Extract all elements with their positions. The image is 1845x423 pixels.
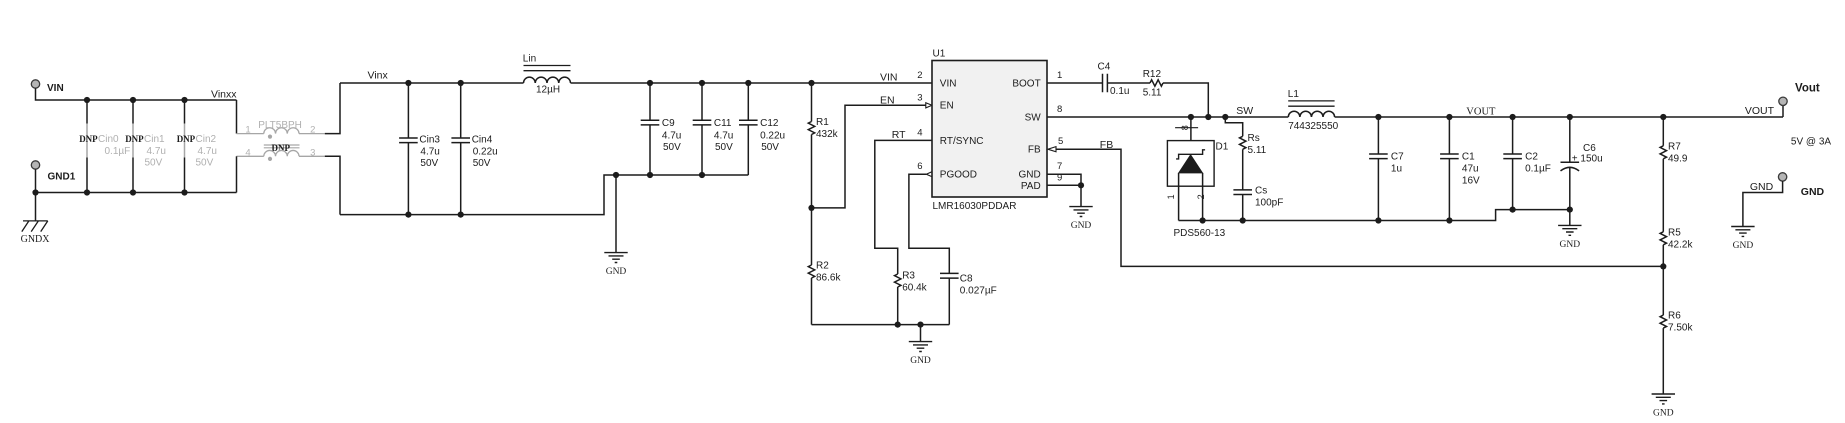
svg-text:C2: C2 bbox=[1525, 152, 1538, 163]
wire PGOOD net bbox=[909, 174, 949, 273]
svg-text:744325550: 744325550 bbox=[1288, 121, 1338, 132]
junction gnd-drop bbox=[613, 172, 619, 178]
junction rail-R1 bbox=[808, 80, 814, 86]
wire to GNDX bbox=[35, 193, 37, 221]
capacitor Cin0 greyed body bbox=[86, 124, 88, 158]
svg-text:50V: 50V bbox=[715, 142, 733, 153]
junction Vinxx-Cin0 bbox=[84, 97, 90, 103]
capacitor Cin2 greyed body bbox=[184, 124, 186, 158]
ground bbox=[1652, 394, 1675, 404]
pin 6 arrow PGOOD bbox=[926, 172, 932, 177]
junction SW-Rs bbox=[1222, 114, 1228, 120]
svg-text:3: 3 bbox=[310, 147, 315, 158]
svg-text:47u: 47u bbox=[1462, 164, 1479, 175]
terminal VIN bbox=[31, 80, 39, 88]
junction SW-R12 bbox=[1205, 114, 1211, 120]
terminal VOUT bbox=[1779, 97, 1787, 105]
wire VOUT to terminal bbox=[1782, 105, 1784, 117]
capacitor C2 bbox=[1512, 117, 1514, 210]
choke FL1 PLT5BPH pin1 lead bbox=[237, 133, 264, 135]
svg-text:EN: EN bbox=[940, 101, 954, 112]
op-amp U1 LMR16030PDDAR body bbox=[932, 61, 1047, 198]
svg-text:VOUT: VOUT bbox=[1466, 106, 1496, 117]
resistor R1 bbox=[811, 83, 813, 122]
junction gnd-Cin0 bbox=[84, 189, 90, 195]
junction FB-R5-R6 bbox=[1660, 263, 1666, 269]
svg-text:86.6k: 86.6k bbox=[816, 272, 841, 283]
svg-text:FB: FB bbox=[1100, 139, 1113, 151]
svg-text:4: 4 bbox=[917, 127, 922, 138]
svg-text:R6: R6 bbox=[1668, 311, 1681, 322]
wire Vinxx corner to choke pin1 bbox=[236, 100, 238, 134]
svg-text:8: 8 bbox=[1057, 104, 1062, 115]
resistor R3 bbox=[895, 274, 901, 287]
junction Vinxx-Cin1 bbox=[130, 97, 136, 103]
pin 5 arrow FB bbox=[1048, 147, 1056, 152]
capacitor C6 polarized bbox=[1569, 117, 1571, 162]
capacitor C12 bbox=[747, 83, 749, 175]
wire SW to Rs bbox=[1225, 117, 1242, 136]
junction GND1-GNDX bbox=[32, 189, 38, 195]
wire bottom ground rail left bbox=[340, 175, 748, 215]
svg-text:2: 2 bbox=[1196, 194, 1206, 199]
capacitor Cin0 (DNP) lead top bbox=[86, 100, 88, 124]
junction R3-gnd bbox=[895, 322, 901, 328]
capacitor Cin0 lead bottom bbox=[86, 158, 88, 193]
resistor R7 bbox=[1662, 117, 1664, 146]
svg-text:FB: FB bbox=[1028, 145, 1041, 156]
svg-text:3: 3 bbox=[917, 92, 922, 103]
svg-text:C7: C7 bbox=[1391, 152, 1404, 163]
wire SW to D1 cathode bbox=[1190, 117, 1192, 154]
ground bbox=[909, 342, 932, 352]
svg-text:PAD: PAD bbox=[1021, 181, 1041, 192]
svg-text:50V: 50V bbox=[145, 158, 163, 169]
svg-text:D1: D1 bbox=[1216, 142, 1229, 153]
svg-text:+ 150u: + 150u bbox=[1572, 153, 1603, 164]
svg-text:GND: GND bbox=[1018, 170, 1040, 181]
ground bbox=[1069, 207, 1092, 217]
choke phase dot bottom bbox=[268, 157, 272, 161]
choke core lines bbox=[264, 145, 300, 148]
junction gnd-C2 bbox=[1510, 207, 1516, 213]
svg-text:12µH: 12µH bbox=[536, 85, 560, 96]
svg-text:RT/SYNC: RT/SYNC bbox=[940, 136, 984, 147]
svg-text:C9: C9 bbox=[662, 118, 675, 129]
capacitor Cin1 (DNP) lead top bbox=[132, 100, 134, 124]
svg-text:2: 2 bbox=[917, 70, 922, 81]
svg-text:Cin4: Cin4 bbox=[472, 135, 493, 146]
wire choke pin3 to bottom rail bbox=[325, 156, 340, 214]
svg-text:PGOOD: PGOOD bbox=[940, 170, 977, 181]
svg-text:4.7u: 4.7u bbox=[714, 130, 733, 141]
wire C4 to R12 bbox=[1107, 82, 1150, 84]
junction vout-C1 bbox=[1446, 114, 1452, 120]
svg-text:Cin3: Cin3 bbox=[419, 135, 440, 146]
choke pin4 lead bbox=[237, 155, 264, 157]
svg-text:GND: GND bbox=[1560, 240, 1581, 250]
svg-text:50V: 50V bbox=[196, 158, 214, 169]
wire C6 to GND bbox=[1569, 210, 1571, 226]
svg-text:0.22u: 0.22u bbox=[760, 130, 785, 141]
wire RT net bbox=[875, 140, 932, 274]
junction gnd-C7 bbox=[1375, 217, 1381, 223]
resistor Rs bbox=[1240, 136, 1246, 149]
svg-text:SW: SW bbox=[1236, 105, 1253, 117]
svg-text:7: 7 bbox=[1057, 161, 1062, 172]
junction SW-D1 bbox=[1188, 114, 1194, 120]
svg-text:4: 4 bbox=[245, 147, 250, 158]
capacitor C7 bbox=[1377, 117, 1379, 221]
junction Vinx-Cin4 bbox=[458, 80, 464, 86]
capacitor Cin1 greyed body bbox=[132, 124, 134, 158]
wire GND terminal to ground bbox=[1743, 181, 1783, 227]
capacitor C8 bbox=[940, 273, 959, 278]
svg-text:R2: R2 bbox=[816, 260, 829, 271]
capacitor Cin2 lead bottom bbox=[184, 158, 186, 193]
junction gnd-Cin4 bbox=[458, 212, 464, 218]
resistor R2 bbox=[811, 208, 813, 265]
svg-text:GND: GND bbox=[1733, 241, 1754, 251]
wire GND PAD pins bbox=[1047, 174, 1081, 206]
capacitor C11 bbox=[701, 83, 703, 175]
svg-text:Rs: Rs bbox=[1248, 133, 1260, 144]
svg-text:0.1u: 0.1u bbox=[1110, 86, 1129, 97]
svg-text:50V: 50V bbox=[663, 142, 681, 153]
svg-text:Vinx: Vinx bbox=[368, 70, 389, 82]
junction gnd-tap bbox=[917, 322, 923, 328]
svg-text:Cin0: Cin0 bbox=[98, 134, 119, 145]
capacitor C1 bbox=[1448, 117, 1450, 221]
svg-text:50V: 50V bbox=[420, 158, 438, 169]
svg-text:5V @ 3A: 5V @ 3A bbox=[1791, 137, 1832, 148]
junction gnd-C6 bbox=[1567, 207, 1573, 213]
junction Vinxx-Cin2 bbox=[181, 97, 187, 103]
svg-text:C11: C11 bbox=[714, 118, 732, 129]
svg-text:4.7u: 4.7u bbox=[147, 146, 166, 157]
junction gnd-C1 bbox=[1446, 217, 1452, 223]
resistor R12 bbox=[1150, 80, 1163, 86]
junction GND-PAD bbox=[1078, 182, 1084, 188]
junction vout-C7 bbox=[1375, 114, 1381, 120]
svg-text:DNP: DNP bbox=[272, 143, 291, 153]
svg-text:PLT5BPH: PLT5BPH bbox=[258, 120, 302, 131]
svg-text:7.50k: 7.50k bbox=[1668, 323, 1693, 334]
choke winding bottom bbox=[264, 150, 299, 156]
svg-text:RT: RT bbox=[892, 129, 906, 141]
svg-text:VIN: VIN bbox=[940, 78, 957, 89]
choke pin3 lead bbox=[299, 155, 325, 157]
wire VOUT rail bbox=[1335, 116, 1783, 118]
wire Vinx rail bbox=[340, 82, 524, 84]
ground bbox=[1731, 227, 1754, 237]
svg-text:GND: GND bbox=[606, 267, 627, 277]
resistor R6 bbox=[1660, 315, 1666, 328]
wire GND1 rail bbox=[36, 169, 237, 192]
svg-text:R3: R3 bbox=[902, 271, 915, 282]
junction Vinx-Cin3 bbox=[405, 80, 411, 86]
svg-text:5.11: 5.11 bbox=[1143, 88, 1162, 99]
inductor Lin winding bbox=[524, 77, 571, 83]
svg-text:DNP: DNP bbox=[177, 134, 196, 144]
svg-text:LMR16030PDDAR: LMR16030PDDAR bbox=[933, 201, 1017, 212]
svg-text:GNDX: GNDX bbox=[21, 234, 51, 245]
wire FB net bbox=[1056, 149, 1663, 266]
svg-text:5.11: 5.11 bbox=[1248, 145, 1267, 156]
svg-text:L1: L1 bbox=[1288, 89, 1300, 100]
svg-text:1: 1 bbox=[1166, 194, 1176, 199]
ground bbox=[1558, 225, 1581, 235]
wire RC ground rail bbox=[812, 324, 950, 326]
capacitor Cin2 (DNP) lead top bbox=[184, 100, 186, 124]
svg-text:SW: SW bbox=[1025, 112, 1042, 123]
pin 3 arrow EN bbox=[926, 103, 932, 108]
capacitor Cin4 bbox=[460, 83, 462, 215]
svg-text:49.9: 49.9 bbox=[1668, 153, 1688, 164]
choke pin2 lead bbox=[299, 133, 325, 135]
junction gnd-Cin3 bbox=[405, 212, 411, 218]
svg-text:5: 5 bbox=[1058, 136, 1063, 147]
inductor L1 bars bbox=[1288, 101, 1334, 106]
svg-text:60.4k: 60.4k bbox=[902, 283, 927, 294]
svg-text:R7: R7 bbox=[1668, 141, 1681, 152]
svg-text:DNP: DNP bbox=[125, 134, 144, 144]
junction R1-R2-EN bbox=[808, 205, 814, 211]
svg-text:GND: GND bbox=[1750, 181, 1774, 193]
svg-text:2: 2 bbox=[310, 125, 315, 136]
chassis ground GNDX bbox=[22, 221, 48, 232]
diode D1 triangle bbox=[1179, 155, 1203, 173]
svg-text:Cin1: Cin1 bbox=[144, 134, 165, 145]
junction gnd-D1pin2 bbox=[1200, 217, 1206, 223]
wire BOOT to C4 bbox=[1047, 82, 1103, 84]
svg-text:4.7u: 4.7u bbox=[662, 130, 681, 141]
svg-text:42.2k: 42.2k bbox=[1668, 239, 1693, 250]
svg-text:0.1µF: 0.1µF bbox=[1525, 164, 1551, 175]
terminal GND bbox=[1778, 173, 1786, 181]
svg-text:432k: 432k bbox=[816, 129, 839, 140]
capacitor Cin3 bbox=[407, 83, 409, 215]
capacitor C9 bbox=[649, 83, 651, 175]
svg-text:4.7u: 4.7u bbox=[198, 146, 217, 157]
svg-text:GND: GND bbox=[1653, 409, 1674, 419]
capacitor Cs bbox=[1233, 190, 1252, 195]
capacitor C4 bbox=[1103, 74, 1108, 93]
svg-text:VIN: VIN bbox=[880, 72, 898, 84]
svg-text:1: 1 bbox=[1057, 70, 1062, 81]
junction gnd-Cs bbox=[1240, 217, 1246, 223]
svg-text:0.22u: 0.22u bbox=[473, 147, 498, 158]
svg-text:50V: 50V bbox=[473, 158, 491, 169]
svg-text:BOOT: BOOT bbox=[1012, 78, 1040, 89]
svg-text:1: 1 bbox=[245, 125, 250, 136]
resistor R5 bbox=[1660, 232, 1666, 245]
junction rail-C9 bbox=[647, 80, 653, 86]
diode D1 anode legs bbox=[1179, 173, 1203, 221]
svg-text:U1: U1 bbox=[933, 49, 946, 60]
pin 8 tick of D1 bbox=[1175, 127, 1198, 129]
svg-text:4.7u: 4.7u bbox=[420, 147, 439, 158]
svg-text:Cin2: Cin2 bbox=[196, 134, 217, 145]
svg-text:0.027µF: 0.027µF bbox=[960, 285, 997, 296]
svg-text:Vinxx: Vinxx bbox=[211, 88, 237, 100]
wire gnd tap bbox=[920, 325, 922, 342]
svg-text:EN: EN bbox=[880, 95, 895, 107]
svg-text:Cs: Cs bbox=[1255, 186, 1267, 197]
svg-text:C12: C12 bbox=[760, 118, 779, 129]
svg-text:C1: C1 bbox=[1462, 152, 1475, 163]
svg-text:GND: GND bbox=[1071, 221, 1092, 231]
svg-text:R1: R1 bbox=[816, 117, 829, 128]
ground bbox=[604, 253, 627, 263]
diode D1 cathode bar bbox=[1176, 150, 1205, 159]
svg-text:GND: GND bbox=[910, 356, 931, 366]
svg-text:DNP: DNP bbox=[79, 134, 98, 144]
svg-text:VOUT: VOUT bbox=[1745, 105, 1775, 117]
svg-text:C4: C4 bbox=[1098, 61, 1111, 72]
wire choke pin2 to Vinx rail bbox=[325, 83, 340, 134]
junction rail-C11 bbox=[699, 80, 705, 86]
svg-text:6: 6 bbox=[917, 161, 922, 172]
svg-text:VIN: VIN bbox=[47, 83, 64, 94]
choke winding top bbox=[264, 128, 299, 134]
junction gnd-Cin1 bbox=[130, 189, 136, 195]
diode D1 package box bbox=[1167, 141, 1214, 187]
junction vout-R7 bbox=[1660, 114, 1666, 120]
wire SW rail bbox=[1047, 116, 1288, 118]
svg-text:Vout: Vout bbox=[1795, 82, 1820, 94]
wire VIN rail to U1 bbox=[571, 82, 933, 84]
inductor Lin bars bbox=[524, 66, 571, 71]
wire VIN to Vinxx rail bbox=[36, 88, 237, 100]
svg-text:50V: 50V bbox=[761, 142, 779, 153]
svg-text:PDS560-13: PDS560-13 bbox=[1174, 228, 1226, 239]
wire choke pin4 to gnd rail bbox=[236, 156, 238, 192]
svg-text:100pF: 100pF bbox=[1255, 198, 1283, 209]
svg-text:8: 8 bbox=[1180, 125, 1190, 130]
junction vout-C2 bbox=[1510, 114, 1516, 120]
svg-text:1u: 1u bbox=[1391, 164, 1402, 175]
svg-text:16V: 16V bbox=[1462, 176, 1480, 187]
svg-text:0.1µF: 0.1µF bbox=[105, 146, 131, 157]
junction gnd-C9 bbox=[647, 172, 653, 178]
svg-text:Lin: Lin bbox=[523, 54, 536, 65]
svg-text:R12: R12 bbox=[1143, 69, 1162, 80]
terminal GND1 bbox=[31, 161, 39, 169]
junction rail-C12 bbox=[745, 80, 751, 86]
svg-text:GND: GND bbox=[1801, 186, 1825, 198]
choke phase dot top bbox=[268, 135, 272, 139]
junction vout-C6 bbox=[1567, 114, 1573, 120]
wire to GND symbol bbox=[615, 175, 617, 253]
wire EN net bbox=[812, 105, 926, 208]
junction gnd-C11 bbox=[699, 172, 705, 178]
junction gnd-Cin2 bbox=[181, 189, 187, 195]
svg-text:R5: R5 bbox=[1668, 227, 1681, 238]
svg-text:GND1: GND1 bbox=[48, 172, 76, 183]
inductor L1 winding bbox=[1288, 111, 1334, 117]
wire output ground rail bbox=[1179, 210, 1570, 221]
svg-text:C8: C8 bbox=[960, 274, 973, 285]
capacitor Cin1 lead bottom bbox=[132, 158, 134, 193]
